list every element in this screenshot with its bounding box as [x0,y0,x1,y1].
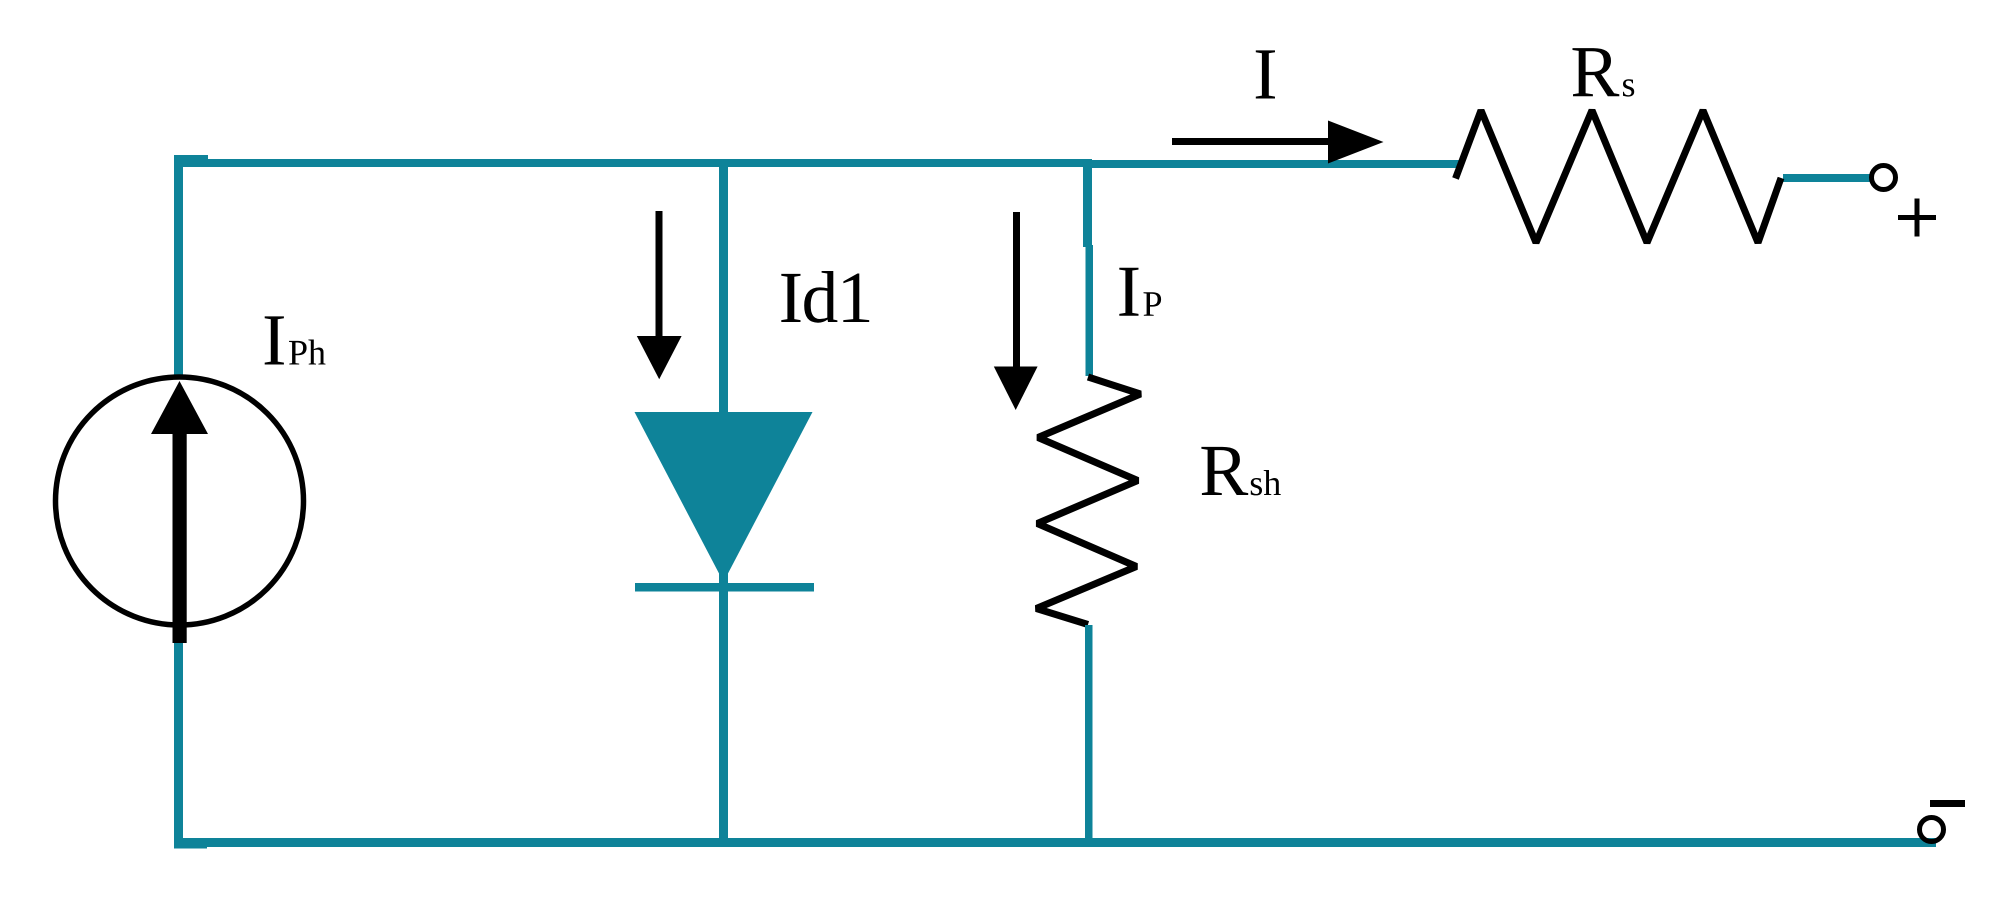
arrow Ip current (shaft) [1013,212,1020,368]
label R_sh subscript [1251,470,1281,495]
wire: bottom-left corner nub [174,838,207,849]
label R_sh main [1201,447,1248,495]
label I_P subscript [1144,292,1162,316]
label Id1 [781,271,869,323]
plus sign horizontal [1898,215,1936,220]
wire: top bus segment B (Rsh junction to Rs) [1083,160,1459,168]
label I_Ph subscript [289,340,326,365]
terminal + circle [1872,166,1896,190]
current source arrow shaft [173,430,187,643]
arrow I output current (head) [1328,121,1384,164]
label I output current [1256,50,1275,98]
minus sign [1930,800,1965,807]
wire: diode branch vertical [719,163,728,843]
label R_s main [1573,48,1620,96]
label I_P main [1119,268,1138,316]
diode D1 cathode bar [635,583,814,592]
wire: Rs right stub to + terminal [1783,174,1873,182]
wire: top-left corner nub [174,155,208,167]
arrow Ip current (head) [994,367,1038,411]
label I_Ph main [265,316,284,364]
current source I_Ph circle [56,377,304,625]
arrow Id1 current (head) [637,336,682,379]
wire: top bus segment A (corner to Rsh junction) [174,159,1092,167]
terminal - circle [1920,818,1944,842]
arrow Id1 current (shaft) [656,211,663,337]
current source arrow head [151,381,208,434]
plus sign vertical [1915,199,1920,237]
resistor Rs zigzag [1456,110,1782,242]
wire: left vertical (through current source) [174,155,183,847]
wire: Rsh branch top (lower part) [1086,245,1094,376]
wire: bottom bus [174,838,1936,847]
diode D1 triangle (anode) [635,412,813,582]
resistor Rsh zigzag [1036,377,1140,625]
wire: Rsh branch bottom stub [1085,625,1093,843]
arrow I output current (shaft) [1172,138,1328,145]
wire: Rsh branch top (upper part) [1083,163,1092,247]
label R_s subscript [1623,79,1634,96]
